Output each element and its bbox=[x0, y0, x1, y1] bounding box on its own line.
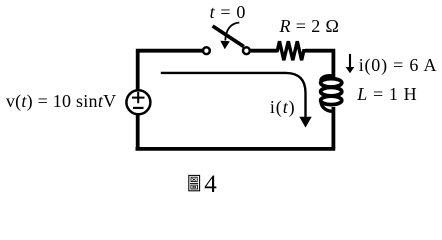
inductor L coil: top hook bbox=[321, 76, 334, 81]
wire: switch right terminal to resistor bbox=[251, 49, 277, 53]
switch motion arrowhead bbox=[220, 41, 230, 49]
current i(t) guide line with arrow bbox=[161, 73, 306, 118]
wire: left vertical top + top run to switch left terminal bbox=[138, 51, 203, 91]
voltage source minus sign bbox=[133, 107, 144, 109]
switch left terminal circle bbox=[203, 47, 210, 54]
label i(t) bbox=[270, 98, 296, 116]
wire: coil bottom to bottom-right corner bbox=[331, 107, 335, 149]
label R = 2 ohm bbox=[280, 17, 340, 35]
resistor R zigzag bbox=[276, 41, 305, 60]
label L = 1 H bbox=[357, 85, 417, 103]
switch right terminal circle bbox=[243, 47, 250, 54]
initial current i(0) down arrow bbox=[349, 54, 351, 68]
i(t) arrowhead bbox=[299, 117, 311, 128]
caption number 4 bbox=[204, 172, 217, 197]
label v(t) = 10 sin t V bbox=[6, 92, 116, 110]
i(0) arrowhead bbox=[346, 67, 355, 73]
inductor loop 2 bbox=[321, 87, 342, 95]
voltage source V1 circle bbox=[126, 90, 150, 114]
label t=0 bbox=[210, 3, 246, 21]
inductor bottom hook bbox=[321, 102, 333, 111]
wire: bottom horizontal bbox=[136, 147, 336, 151]
voltage source plus sign bbox=[132, 92, 145, 103]
label i(0) = 6 A bbox=[359, 56, 438, 74]
wire: left vertical below source bbox=[136, 114, 140, 149]
switch blade (open) bbox=[213, 26, 244, 47]
inductor loop 1 bbox=[321, 79, 342, 87]
wire: resistor right to top-right corner down to coil top bbox=[305, 51, 333, 79]
caption glyph 圖 (drawn) bbox=[189, 175, 200, 190]
inductor loop 3 bbox=[321, 96, 342, 104]
switch motion arrow curve bbox=[225, 23, 239, 41]
